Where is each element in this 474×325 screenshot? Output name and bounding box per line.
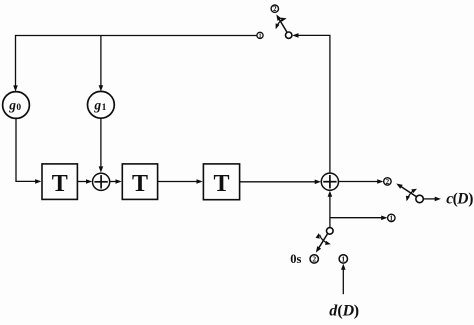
gain tap g0 [3, 92, 30, 119]
delay element T3 [203, 164, 239, 200]
svg-text:D: D [342, 303, 355, 320]
contact 1 of S1 [257, 32, 263, 39]
wire: A2 to contact 2 of switch S2 [339, 179, 384, 184]
svg-text:0s: 0s [290, 252, 301, 266]
contact 2 of S2 [384, 178, 392, 186]
switch S3 pivot [327, 228, 334, 235]
wire: T1 to adder A1 [77, 179, 92, 184]
svg-text:g: g [93, 97, 101, 112]
wire: A1 to T2 [110, 179, 122, 184]
svg-text:1: 1 [258, 33, 261, 40]
svg-text:D: D [456, 191, 468, 208]
switch S2 throw arc [406, 189, 417, 202]
switch S2 pivot [416, 195, 424, 203]
switch S1 pivot [286, 32, 292, 38]
delay element T2 [122, 164, 157, 200]
contact 1 of S3 [339, 255, 347, 264]
wire: top bus tap down to g1 [99, 36, 104, 92]
wire: input riser from S3 pivot up into A2 [328, 191, 333, 228]
wire: feedback from A2 up and left to switch S1 [292, 33, 330, 173]
wire: g1 down into adder A1 [99, 118, 104, 173]
svg-text:g: g [8, 98, 16, 113]
wire: T3 to adder A2 [240, 180, 321, 185]
svg-text:0: 0 [16, 103, 21, 113]
adder A2 (modulo-2) [321, 173, 338, 190]
svg-text:T: T [213, 171, 229, 197]
wire: branch to contact 1 of S2 [330, 216, 388, 221]
label c(D) [446, 191, 473, 208]
contact 2 of S3 [310, 255, 318, 264]
adder A1 (modulo-2) [93, 173, 110, 190]
wire: vertical drop to g0 [13, 35, 18, 92]
wire: d(D) input arrow up to contact 1 [341, 264, 346, 295]
switch S2 arm (to position 2) [396, 184, 416, 197]
svg-text:T: T [52, 171, 68, 197]
svg-text:1: 1 [102, 103, 107, 113]
switch S3 throw arc [316, 233, 331, 245]
gain tap g1 [88, 91, 115, 118]
svg-text:1: 1 [341, 255, 345, 264]
wire: top horizontal bus [16, 35, 258, 37]
wire: T2 to T3 [158, 179, 203, 184]
svg-text:): ) [354, 303, 359, 320]
svg-text:2: 2 [312, 255, 316, 264]
svg-text:2: 2 [273, 5, 277, 13]
svg-text:1: 1 [390, 214, 394, 222]
contact 2 of S1 [271, 5, 278, 13]
svg-text:): ) [468, 191, 473, 208]
delay element T1 [42, 164, 77, 200]
contact 1 of S2 [388, 214, 396, 222]
switch S1 arm (to position 2) [276, 14, 287, 32]
wire: g0 down and right into T1 [16, 118, 41, 183]
svg-text:2: 2 [386, 178, 390, 186]
wire: S2 pivot to c(D) output [423, 197, 441, 202]
label d(D) [329, 303, 359, 320]
svg-text:T: T [132, 171, 148, 197]
switch S1 throw arc [276, 18, 287, 30]
switch S3 arm (to position 2) [316, 234, 328, 253]
